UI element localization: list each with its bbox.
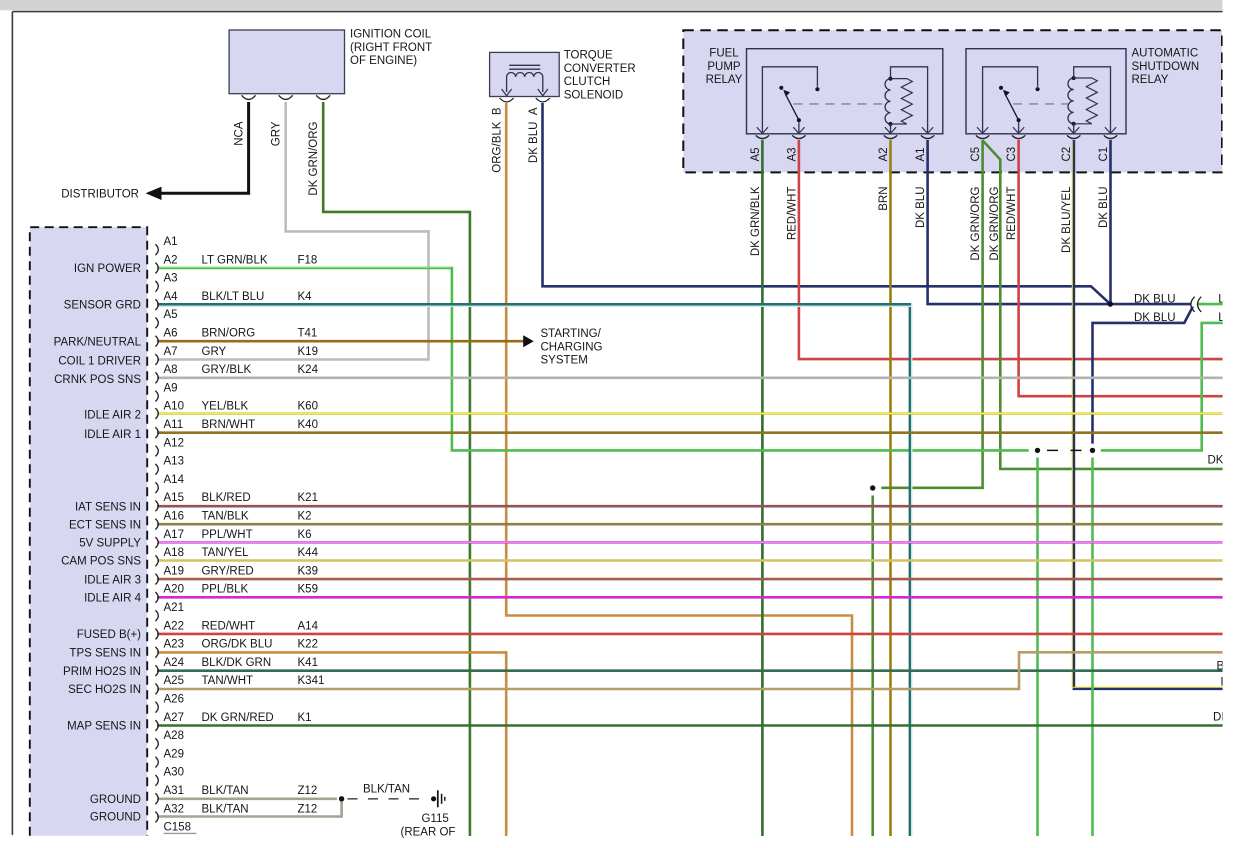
- svg-text:CHARGING: CHARGING: [541, 341, 603, 353]
- svg-text:K2: K2: [298, 511, 312, 523]
- svg-text:A14: A14: [164, 474, 185, 486]
- solenoid coil winding: [507, 72, 543, 92]
- svg-text:A1: A1: [164, 236, 178, 248]
- wire DK GRN/BLK relay A5: [761, 140, 764, 836]
- ignition coil box: [229, 30, 344, 94]
- splice dashed link: [1047, 449, 1084, 451]
- wire LT GRN/BLK PCM A2 F18: [157, 268, 1029, 450]
- fuel pump relay pin arrow x=798.9: [793, 127, 804, 133]
- svg-text:5V SUPPLY: 5V SUPPLY: [79, 538, 141, 550]
- PCM pin A1: [155, 244, 158, 255]
- PCM pin A15: [155, 501, 158, 512]
- automatic shutdown relay coil: [1068, 78, 1074, 124]
- wire LT GRN splice drop left: [1036, 458, 1039, 837]
- svg-text:K60: K60: [298, 401, 318, 413]
- svg-text:A23: A23: [164, 639, 184, 651]
- svg-text:A3: A3: [164, 273, 178, 285]
- splice dot LT GRN at A2 net: [1035, 448, 1040, 453]
- svg-text:A31: A31: [164, 785, 184, 797]
- automatic shutdown relay coil lower stub: [1073, 124, 1075, 133]
- svg-text:K24: K24: [298, 364, 319, 376]
- svg-text:PUMP: PUMP: [707, 61, 741, 73]
- svg-text:A16: A16: [164, 511, 184, 523]
- svg-text:A14: A14: [298, 620, 319, 632]
- svg-text:A10: A10: [164, 401, 184, 413]
- ignition coil pin arc at x=248.6: [242, 95, 256, 99]
- svg-text:PPL/BLK: PPL/BLK: [202, 584, 249, 596]
- svg-text:SENSOR GRD: SENSOR GRD: [64, 300, 141, 312]
- svg-text:K40: K40: [298, 419, 318, 431]
- svg-text:PRIM HO2S IN: PRIM HO2S IN: [63, 666, 141, 678]
- svg-text:SHUTDOWN: SHUTDOWN: [1132, 61, 1200, 73]
- wire DK GRN/ORG relay C5 second: [983, 141, 1225, 469]
- svg-text:BRN/WHT: BRN/WHT: [202, 419, 256, 431]
- PCM pin A27: [155, 720, 158, 731]
- svg-text:COIL 1 DRIVER: COIL 1 DRIVER: [58, 356, 141, 368]
- svg-text:C3: C3: [1006, 147, 1018, 162]
- wire LT GRN splice drop right: [1091, 458, 1094, 837]
- wire DK GRN/RED PCM A27 K1: [157, 724, 1225, 727]
- wire RED/WHT PCM A22 A14: [157, 633, 1225, 636]
- svg-text:FUSED B(+): FUSED B(+): [77, 629, 141, 641]
- top gray toolbar strip: [0, 0, 1223, 10]
- svg-text:A4: A4: [164, 291, 179, 303]
- wire DK GRN/ORG relay C5 first: [881, 140, 982, 488]
- svg-text:BLK/DK GRN: BLK/DK GRN: [202, 657, 272, 669]
- PCM pin A30: [155, 775, 158, 786]
- svg-text:BLK/LT BLU: BLK/LT BLU: [202, 291, 265, 303]
- svg-text:RED/WHT: RED/WHT: [202, 620, 256, 632]
- svg-text:A20: A20: [164, 584, 184, 596]
- fuel pump relay resistor: [891, 79, 913, 124]
- svg-text:RELAY: RELAY: [1132, 74, 1169, 86]
- svg-text:STARTING/: STARTING/: [541, 328, 602, 340]
- svg-text:DK BLU: DK BLU: [1098, 187, 1110, 229]
- svg-text:ORG/BLK B: ORG/BLK B: [492, 107, 504, 173]
- svg-text:DK BLU: DK BLU: [915, 187, 927, 229]
- svg-text:RED/WHT: RED/WHT: [1006, 187, 1018, 241]
- wire YEL/BLK tracer: [157, 412, 1225, 414]
- PCM pin A19: [155, 574, 158, 585]
- svg-text:K21: K21: [298, 492, 318, 504]
- fuel pump relay pin arrow x=762.4: [757, 127, 768, 133]
- svg-text:Z12: Z12: [298, 803, 318, 815]
- svg-text:IGN POWER: IGN POWER: [74, 263, 141, 275]
- svg-text:C2: C2: [1061, 147, 1073, 162]
- wire YEL/BLK PCM A10 K60: [157, 412, 1225, 415]
- wire TAN/WHT PCM A25 K341: [157, 652, 1225, 689]
- svg-text:A30: A30: [164, 767, 184, 779]
- PCM pin A32: [155, 812, 158, 823]
- fuel pump relay moving contact stub: [798, 122, 800, 133]
- svg-text:IAT SENS IN: IAT SENS IN: [75, 501, 141, 513]
- wire BRN/ORG PCM A6 T41: [157, 340, 524, 343]
- svg-text:A26: A26: [164, 694, 184, 706]
- svg-text:K341: K341: [298, 675, 325, 687]
- svg-text:GROUND: GROUND: [90, 794, 141, 806]
- fuel pump relay switch feed bracket: [762, 67, 817, 133]
- wire PPL/WHT PCM A17 K6: [157, 541, 1225, 544]
- ignition coil pin arc at x=285.7: [279, 95, 293, 99]
- solenoid pin arrows: [502, 89, 512, 96]
- page border left: [11, 12, 13, 835]
- svg-text:T41: T41: [298, 328, 318, 340]
- automatic shutdown relay resistor: [1074, 78, 1098, 124]
- svg-text:PPL/WHT: PPL/WHT: [202, 529, 253, 541]
- svg-text:G115: G115: [422, 813, 449, 825]
- svg-text:SYSTEM: SYSTEM: [541, 355, 588, 367]
- svg-text:TAN/WHT: TAN/WHT: [202, 675, 254, 687]
- svg-text:DK GRN/ORG: DK GRN/ORG: [308, 121, 320, 195]
- svg-text:DK GRN/RED: DK GRN/RED: [202, 712, 274, 724]
- junction dot DK GRN/ORG: [870, 485, 875, 490]
- PCM pin A16: [155, 519, 158, 530]
- svg-text:GRY: GRY: [271, 121, 283, 146]
- svg-text:A19: A19: [164, 565, 184, 577]
- torque converter clutch solenoid box: [490, 52, 560, 96]
- svg-text:K41: K41: [298, 657, 318, 669]
- svg-text:OF ENGINE): OF ENGINE): [350, 55, 417, 67]
- wire BRN/WHT PCM A11 K40: [157, 431, 1225, 434]
- PCM pin A11: [155, 427, 158, 438]
- wire BLK/LT BLU pale tracer: [157, 306, 912, 836]
- wire LT GRN from connector row1: [1198, 303, 1226, 306]
- PCM pin A24: [155, 665, 158, 676]
- fuel pump relay coil: [885, 79, 890, 124]
- PCM pin A31: [155, 793, 158, 804]
- wire PPL/WHT tracer: [157, 541, 1225, 543]
- wire ORG/BLK solenoid pin B: [506, 103, 852, 836]
- wire BLK/RED PCM A15 K21: [157, 505, 1225, 508]
- svg-text:GRY/BLK: GRY/BLK: [202, 364, 252, 376]
- right margin strip: [1223, 0, 1238, 848]
- PCM pin A13: [155, 464, 158, 475]
- svg-text:C158: C158: [164, 822, 192, 834]
- svg-text:K59: K59: [298, 584, 318, 596]
- svg-text:DK BLU: DK BLU: [1134, 294, 1176, 306]
- svg-text:DK BLU/YEL: DK BLU/YEL: [1061, 186, 1073, 253]
- wire RED/WHT relay C3: [1019, 140, 1225, 396]
- svg-text:K6: K6: [298, 529, 312, 541]
- wire TAN/YEL PCM A18 K44: [157, 559, 1225, 562]
- svg-text:DK GRN/ORG: DK GRN/ORG: [970, 186, 982, 260]
- svg-text:A11: A11: [164, 419, 184, 431]
- wire BLK/DK GRN PCM A24 K41: [157, 669, 1225, 672]
- PCM pin A28: [155, 738, 158, 749]
- svg-text:BRN: BRN: [878, 187, 890, 211]
- wire DK BLU/YEL yellow tracer: [1072, 141, 1225, 687]
- svg-text:GRY/RED: GRY/RED: [202, 565, 254, 577]
- PCM pin A17: [155, 537, 158, 548]
- svg-text:IDLE AIR 3: IDLE AIR 3: [84, 574, 141, 586]
- svg-text:A27: A27: [164, 712, 184, 724]
- svg-text:A21: A21: [164, 602, 184, 614]
- svg-text:A6: A6: [164, 328, 178, 340]
- PCM pin A6: [155, 336, 158, 347]
- svg-text:A12: A12: [164, 437, 184, 449]
- PCM pin A5: [155, 318, 158, 329]
- wire DK GRN/ORG splice drop: [871, 496, 874, 837]
- svg-text:LT GRN/BLK: LT GRN/BLK: [202, 254, 268, 266]
- PCM connector C158 box (dashed lavender): [30, 227, 147, 836]
- wire DK BLU/YEL relay C2: [1074, 140, 1225, 689]
- PCM pin A12: [155, 446, 158, 457]
- fuel pump relay switch blade: [797, 118, 801, 122]
- svg-text:K19: K19: [298, 346, 318, 358]
- svg-text:IDLE AIR 4: IDLE AIR 4: [84, 593, 141, 605]
- svg-text:(REAR OF: (REAR OF: [401, 826, 456, 838]
- wire DK BLU to splice from connector: [1093, 307, 1193, 444]
- wire LT GRN/BLK tracer: [157, 266, 451, 268]
- svg-text:K4: K4: [298, 291, 313, 303]
- ignition coil pin arc at x=323.2: [316, 95, 330, 99]
- svg-text:A13: A13: [164, 456, 184, 468]
- svg-text:A28: A28: [164, 730, 184, 742]
- wire DK BLU solenoid pin A: [543, 103, 1111, 304]
- svg-text:BLK/TAN: BLK/TAN: [202, 785, 249, 797]
- svg-text:RED/WHT: RED/WHT: [786, 187, 798, 241]
- PCM pin A29: [155, 757, 158, 768]
- svg-text:DK GRN/BLK: DK GRN/BLK: [750, 186, 762, 256]
- svg-text:C1: C1: [1098, 147, 1110, 162]
- wire TAN/BLK PCM A16 K2: [157, 523, 1225, 526]
- dashed BLK/TAN to ground: [348, 798, 428, 800]
- svg-text:IDLE AIR 1: IDLE AIR 1: [84, 429, 141, 441]
- PCM pin A22: [155, 629, 158, 640]
- wire PPL/BLK PCM A20 K59: [157, 596, 1225, 599]
- svg-text:SEC HO2S IN: SEC HO2S IN: [68, 684, 141, 696]
- wire DK BLU dot to connector: [1110, 303, 1191, 306]
- svg-text:TAN/YEL: TAN/YEL: [202, 547, 250, 559]
- svg-text:C5: C5: [970, 147, 982, 162]
- wire DK BLU relay C1: [1109, 140, 1112, 304]
- splice dot BLK/TAN: [339, 796, 344, 801]
- PCM pin A21: [155, 610, 158, 621]
- automatic shutdown relay pin arrow x=1073.7: [1068, 127, 1079, 133]
- relays outer dashed lavender box: [683, 30, 1222, 172]
- svg-text:A2: A2: [164, 254, 178, 266]
- fuel pump relay upper bracket to coil: [891, 67, 928, 133]
- svg-text:A29: A29: [164, 748, 184, 760]
- wire DK BLU relay A1: [928, 140, 1111, 304]
- svg-text:K22: K22: [298, 639, 318, 651]
- automatic shutdown relay upper bracket to coil: [1074, 67, 1111, 133]
- svg-text:IGNITION COIL: IGNITION COIL: [350, 29, 432, 41]
- PCM pin A10: [155, 408, 158, 419]
- wire GRY/RED PCM A19 K39: [157, 578, 1225, 581]
- PCM pin A20: [155, 592, 158, 603]
- junction dot DK BLU node: [1108, 301, 1113, 306]
- svg-text:SOLENOID: SOLENOID: [564, 89, 623, 101]
- svg-text:CRNK POS SNS: CRNK POS SNS: [54, 374, 141, 386]
- svg-text:AUTOMATIC: AUTOMATIC: [1132, 48, 1199, 60]
- wire BRN relay A2: [889, 140, 892, 836]
- fuel pump relay inner box: [747, 49, 943, 134]
- svg-text:IDLE AIR 2: IDLE AIR 2: [84, 410, 141, 422]
- svg-text:A7: A7: [164, 346, 178, 358]
- svg-text:DISTRIBUTOR: DISTRIBUTOR: [61, 189, 139, 201]
- automatic shutdown relay switch feed bracket: [983, 67, 1038, 133]
- svg-text:A5: A5: [750, 147, 762, 161]
- automatic shutdown relay pin arrow x=982.6: [977, 127, 988, 133]
- svg-text:YEL/BLK: YEL/BLK: [202, 401, 249, 413]
- PCM pin A8: [155, 372, 158, 383]
- svg-text:A22: A22: [164, 620, 184, 632]
- PCM pin A9: [155, 391, 158, 402]
- wire BLK/TAN PCM A32 Z12: [157, 802, 342, 817]
- fuel pump relay actuation dashed link: [793, 103, 884, 105]
- PCM pin A26: [155, 702, 158, 713]
- wire BLK/LT BLU PCM A4 K4: [157, 304, 910, 836]
- svg-text:ECT SENS IN: ECT SENS IN: [69, 519, 141, 531]
- svg-text:A17: A17: [164, 529, 184, 541]
- svg-text:GRY: GRY: [202, 346, 227, 358]
- wire DK GRN/ORG ignition coil K17: [323, 102, 470, 836]
- automatic shutdown relay pin arrow x=1018.6: [1013, 127, 1024, 133]
- automatic shutdown relay inner box: [966, 49, 1126, 134]
- svg-text:TORQUE: TORQUE: [564, 50, 613, 62]
- svg-text:GROUND: GROUND: [90, 812, 141, 824]
- svg-text:A3: A3: [786, 147, 798, 161]
- svg-text:DK BLU: DK BLU: [1134, 312, 1176, 324]
- distributor arrow: [146, 187, 162, 200]
- PCM pin A18: [155, 555, 158, 566]
- svg-text:A2: A2: [878, 147, 890, 161]
- fuel pump relay coil lower stub: [890, 124, 892, 133]
- PCM pin A7: [155, 354, 158, 365]
- starting/charging arrow: [523, 335, 534, 347]
- svg-text:(RIGHT FRONT: (RIGHT FRONT: [350, 42, 432, 54]
- svg-text:CLUTCH: CLUTCH: [564, 76, 611, 88]
- svg-text:F18: F18: [298, 254, 318, 266]
- automatic shutdown relay actuation dashed link: [1013, 103, 1068, 105]
- svg-text:A25: A25: [164, 675, 184, 687]
- svg-text:CAM POS SNS: CAM POS SNS: [61, 556, 141, 568]
- page border top: [12, 11, 1222, 13]
- svg-text:NCA: NCA: [234, 121, 246, 146]
- svg-text:A1: A1: [915, 147, 927, 161]
- svg-text:FUEL: FUEL: [709, 48, 739, 60]
- svg-text:CONVERTER: CONVERTER: [564, 63, 636, 75]
- svg-text:K1: K1: [298, 712, 312, 724]
- svg-text:DK BLU A: DK BLU A: [528, 107, 540, 163]
- fuel pump relay pin arrow x=927.6: [922, 127, 933, 133]
- PCM pin A23: [155, 647, 158, 658]
- automatic shutdown relay moving contact stub: [1018, 122, 1020, 133]
- solenoid pin arcs: [500, 98, 514, 102]
- svg-text:MAP SENS IN: MAP SENS IN: [67, 721, 141, 733]
- svg-text:K44: K44: [298, 547, 319, 559]
- svg-text:A24: A24: [164, 657, 185, 669]
- PCM pin A25: [155, 684, 158, 695]
- svg-text:TPS SENS IN: TPS SENS IN: [69, 648, 141, 660]
- fuel pump relay pin arrow x=890.5: [885, 127, 896, 133]
- svg-text:BRN/ORG: BRN/ORG: [202, 328, 256, 340]
- svg-text:A9: A9: [164, 382, 178, 394]
- svg-text:A8: A8: [164, 364, 178, 376]
- PCM pin A3: [155, 281, 158, 292]
- svg-text:BLK/RED: BLK/RED: [202, 492, 251, 504]
- wire GRY ignition coil to PCM A7: [157, 102, 429, 360]
- PCM pin A2: [155, 263, 158, 274]
- svg-text:PARK/NEUTRAL: PARK/NEUTRAL: [54, 336, 142, 348]
- svg-text:A5: A5: [164, 309, 178, 321]
- svg-text:K39: K39: [298, 565, 318, 577]
- wire RED/WHT relay A3: [799, 140, 1225, 359]
- svg-text:TAN/BLK: TAN/BLK: [202, 511, 249, 523]
- svg-text:ORG/DK BLU: ORG/DK BLU: [202, 639, 273, 651]
- wire GRY/BLK PCM A8 K24: [157, 376, 1225, 379]
- svg-text:BLK/TAN: BLK/TAN: [202, 803, 249, 815]
- automatic shutdown relay switch blade: [1017, 118, 1021, 122]
- solenoid core lines: [509, 64, 540, 66]
- wire ORG/DK BLU PCM A23 K22: [157, 652, 506, 836]
- ground G115 symbol: [431, 796, 436, 801]
- wire NCA black from ignition coil to distributor: [157, 102, 249, 193]
- wire LT GRN row2 elbow: [1101, 323, 1225, 451]
- svg-text:A32: A32: [164, 803, 184, 815]
- PCM pin A4: [155, 299, 158, 310]
- svg-text:Z12: Z12: [298, 785, 318, 797]
- svg-text:A15: A15: [164, 492, 184, 504]
- svg-text:RELAY: RELAY: [706, 74, 743, 86]
- wire BLK/TAN PCM A31 Z12: [157, 797, 337, 800]
- svg-text:BLK/TAN: BLK/TAN: [363, 784, 410, 796]
- svg-text:A18: A18: [164, 547, 184, 559]
- PCM pin A14: [155, 482, 158, 493]
- automatic shutdown relay pin arrow x=1110.5: [1105, 127, 1116, 133]
- in-line connector arcs ((: [1191, 297, 1195, 312]
